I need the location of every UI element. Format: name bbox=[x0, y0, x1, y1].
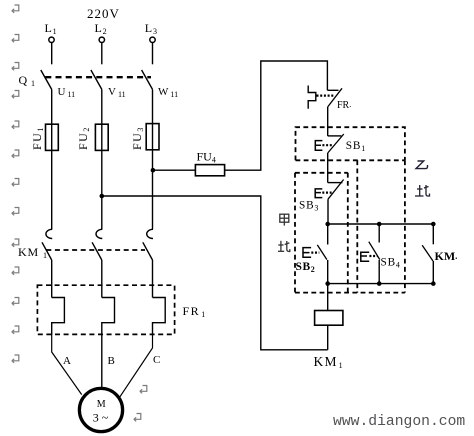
wire FU4 to control circuit riser bbox=[225, 61, 328, 170]
contactor KM1 main contact 2 arc bbox=[96, 229, 102, 238]
contactor KM1 linkage dashed line bbox=[46, 249, 145, 251]
switch Q1 linkage dashed line bbox=[45, 76, 151, 78]
pushbutton SB4 actuator E bbox=[361, 252, 369, 261]
pushbutton SB3 NC blade bbox=[328, 180, 344, 200]
pushbutton SB2 branch wire top bbox=[327, 224, 329, 245]
pushbutton SB2 NO blade bbox=[317, 245, 327, 260]
wire FR1 heater 2 to motor terminal B bbox=[101, 335, 103, 389]
wire FU2 to KM contact 2 bbox=[101, 150, 103, 229]
wire KM1 coil to return bbox=[327, 325, 329, 350]
contactor KM1 main contact 1 arc bbox=[46, 229, 52, 238]
node bottom bus right bbox=[431, 281, 436, 286]
pushbutton SB2 actuator E bbox=[303, 248, 311, 258]
coil KM1 bbox=[315, 311, 343, 326]
pushbutton SB4 dotted link bbox=[369, 255, 377, 257]
wire SB1 to SB3 bbox=[327, 153, 329, 183]
label di (location B) bbox=[415, 185, 430, 196]
terminal circle L1 bbox=[49, 37, 54, 42]
switch Q1 blade pole 2 bbox=[91, 70, 102, 89]
paragraph return mark near motor lower bbox=[134, 414, 141, 422]
fuse FU4 bbox=[195, 165, 224, 176]
node top bus right bbox=[431, 222, 436, 227]
svg-text:3 ~: 3 ~ bbox=[93, 411, 109, 425]
fuse FU1 bbox=[46, 124, 59, 150]
motor M 3~ bbox=[79, 388, 122, 431]
contactor KM auxiliary contact branch bottom bbox=[432, 261, 434, 284]
wire KM contact 2 to FR1 heater bbox=[101, 260, 103, 298]
top parallel bus wire bbox=[328, 223, 434, 225]
wire FR1 heater 1 to motor terminal A bbox=[52, 335, 82, 395]
pushbutton SB2 branch wire bottom bbox=[327, 260, 329, 284]
pushbutton SB4 branch wire bottom bbox=[378, 260, 380, 284]
node junction on L2 feeding control return bbox=[100, 194, 105, 199]
contactor KM1 main contact 3 blade bbox=[143, 242, 153, 260]
dashed box location B stop (SB1) bbox=[296, 127, 405, 160]
thermal relay FR1 heater element 3 bbox=[153, 298, 166, 336]
pushbutton SB4 NO blade bbox=[369, 242, 380, 260]
wire L2 to Q1 bbox=[101, 43, 103, 65]
thermal relay FR NC contact fixed bar bbox=[327, 89, 338, 91]
pushbutton SB1 NC blade bbox=[328, 134, 344, 153]
thermal relay FR1 dashed enclosure bbox=[37, 285, 174, 334]
svg-text:A: A bbox=[63, 355, 71, 367]
wire SB3 to parallel bus bbox=[327, 199, 329, 224]
contactor KM auxiliary NO blade bbox=[422, 245, 433, 261]
svg-text:B: B bbox=[108, 355, 115, 367]
node junction on L3 feeding FU4 bbox=[151, 168, 156, 173]
terminal circle L2 bbox=[99, 37, 104, 42]
pushbutton SB2 dotted link bbox=[311, 252, 319, 254]
thermal relay FR NC contact blade bbox=[328, 88, 342, 106]
terminal circle L3 bbox=[150, 37, 155, 42]
wire L3 to Q1 bbox=[152, 43, 154, 65]
pushbutton SB3 dotted link bbox=[322, 192, 331, 194]
dashed box location B right portion (SB4) bbox=[356, 160, 358, 292]
wire FR contact to SB1 bbox=[327, 107, 329, 136]
fuse FU2 bbox=[95, 124, 108, 150]
label di (location A) bbox=[278, 241, 290, 252]
shared dashed line bottom of SB1 box / top of SB4 box bbox=[296, 159, 405, 161]
switch Q1 blade pole 3 bbox=[142, 70, 153, 89]
node top bus left bbox=[325, 222, 330, 227]
svg-text:M: M bbox=[97, 399, 106, 410]
wire FR1 heater 3 to motor terminal C bbox=[120, 335, 153, 397]
paragraph return mark near motor upper bbox=[140, 386, 147, 394]
node top bus middle bbox=[377, 222, 382, 227]
node bottom bus middle bbox=[377, 281, 382, 286]
svg-text:220V: 220V bbox=[87, 6, 120, 21]
wire KM contact 3 to FR1 heater bbox=[152, 260, 154, 298]
svg-text:C: C bbox=[153, 354, 160, 366]
wire Q1 to FU3 bbox=[152, 89, 154, 125]
bottom parallel bus wire bbox=[328, 283, 434, 285]
svg-text:KM.: KM. bbox=[435, 249, 458, 263]
dashed box location A (jia di) bbox=[295, 172, 348, 174]
pushbutton SB1 dotted link bbox=[322, 144, 332, 146]
contactor KM1 main contact 1 blade bbox=[42, 242, 52, 260]
svg-text:FR.: FR. bbox=[337, 100, 351, 111]
contactor KM1 main contact 3 arc bbox=[147, 229, 153, 238]
pushbutton SB1 NC fixed bar bbox=[328, 135, 342, 137]
pushbutton SB1 actuator E bbox=[315, 141, 322, 151]
fuse FU3 bbox=[146, 124, 159, 150]
shared dashed bottom line of boxes bbox=[295, 292, 405, 294]
wire L1 to Q1 bbox=[51, 43, 53, 65]
pushbutton SB3 NC fixed bar bbox=[328, 182, 343, 184]
wire Q1 to FU2 bbox=[101, 89, 103, 125]
wire KM contact 1 to FR1 heater bbox=[51, 260, 53, 298]
pushbutton SB4 branch wire top bbox=[378, 224, 380, 243]
thermal relay FR trip element (control) bbox=[308, 86, 316, 109]
wire FU3 to KM contact 3 bbox=[152, 150, 154, 229]
thermal relay FR1 heater element 1 bbox=[52, 298, 65, 336]
pushbutton SB3 actuator E bbox=[315, 189, 322, 198]
contactor KM1 main contact 2 blade bbox=[92, 242, 102, 260]
label yi (location B) bbox=[416, 161, 428, 169]
wire bottom bus to KM1 coil bbox=[327, 284, 329, 311]
contactor KM auxiliary contact branch top bbox=[432, 224, 434, 244]
wire Q1 to FU1 bbox=[51, 89, 53, 125]
label jia (location A) bbox=[280, 214, 289, 226]
thermal relay FR dotted link bbox=[317, 94, 336, 96]
paragraph return marks (left margin) bbox=[12, 5, 147, 421]
node bottom bus left bbox=[325, 281, 330, 286]
wire L2 junction to control return riser bbox=[102, 196, 328, 350]
switch Q1 blade pole 1 bbox=[41, 70, 52, 89]
thermal relay FR1 heater element 2 bbox=[102, 298, 115, 336]
wire FU1 to KM contact 1 bbox=[51, 150, 53, 229]
wire L3 junction to FU4 bbox=[153, 169, 196, 171]
svg-text:www.diangon.com: www.diangon.com bbox=[333, 414, 465, 430]
